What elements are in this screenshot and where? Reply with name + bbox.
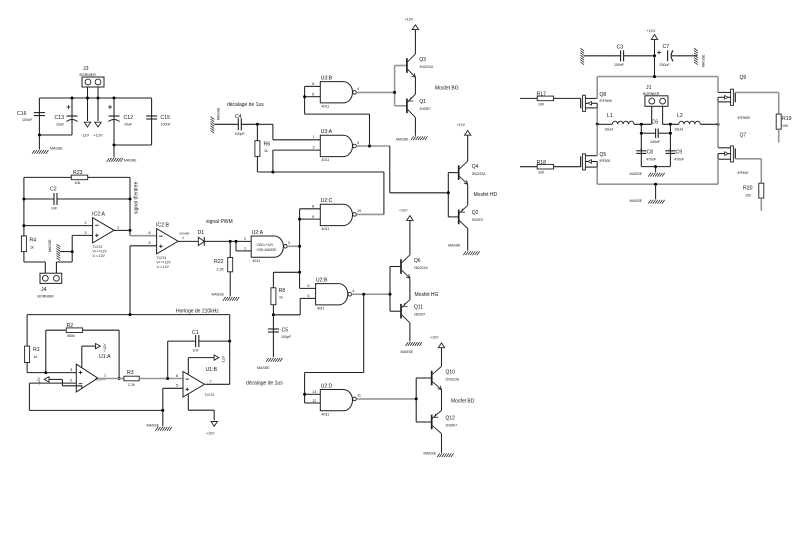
wire J3 pin1 to -12V arrow bbox=[87, 87, 89, 121]
inductor L1 bbox=[597, 113, 652, 132]
svg-text:J4: J4 bbox=[41, 287, 47, 293]
svg-text:Mosfet BG: Mosfet BG bbox=[435, 86, 459, 92]
svg-text:+12V: +12V bbox=[457, 123, 466, 127]
wire J1 pin2 bbox=[662, 106, 664, 124]
svg-text:MASSE: MASSE bbox=[630, 199, 643, 203]
svg-text:Q3: Q3 bbox=[419, 57, 426, 63]
junction bbox=[368, 145, 371, 148]
svg-text:13: 13 bbox=[312, 390, 316, 394]
svg-text:R19: R19 bbox=[782, 116, 792, 122]
net label signal PWM bbox=[206, 219, 233, 225]
svg-text:L2: L2 bbox=[677, 113, 683, 119]
inductor L2 bbox=[663, 113, 718, 132]
svg-text:100pF: 100pF bbox=[281, 335, 292, 339]
svg-text:5: 5 bbox=[312, 93, 314, 97]
resistor R22 bbox=[214, 241, 233, 296]
wire to U3A pin2 bbox=[273, 146, 320, 172]
svg-text:R23: R23 bbox=[73, 170, 83, 176]
junction bbox=[113, 144, 116, 147]
resistor R1 bbox=[25, 315, 40, 373]
capacitor C13 bbox=[55, 98, 78, 135]
svg-text:U3:B: U3:B bbox=[321, 75, 333, 81]
svg-text:100nF: 100nF bbox=[22, 118, 33, 122]
svg-text:signal PWM: signal PWM bbox=[206, 219, 233, 225]
svg-text:1nF: 1nF bbox=[51, 207, 58, 211]
junction bbox=[654, 183, 657, 186]
svg-text:Q6: Q6 bbox=[414, 258, 421, 264]
ground MASSE bbox=[401, 342, 423, 354]
wire Q5 source to rail bbox=[596, 167, 598, 184]
resistor R3 bbox=[104, 370, 183, 387]
svg-text:C15: C15 bbox=[161, 115, 171, 121]
svg-text:R4: R4 bbox=[30, 238, 37, 244]
svg-text:3: 3 bbox=[85, 231, 87, 235]
svg-text:C3: C3 bbox=[617, 45, 624, 51]
svg-text:+12V: +12V bbox=[103, 343, 107, 352]
net label Mosfet BG bbox=[435, 86, 459, 92]
net label Mosfet BD bbox=[451, 399, 475, 405]
svg-text:MASSE: MASSE bbox=[217, 107, 221, 120]
junction bbox=[129, 229, 132, 232]
svg-text:R18: R18 bbox=[537, 160, 547, 166]
svg-text:6: 6 bbox=[149, 231, 151, 235]
svg-text:1: 1 bbox=[104, 374, 106, 378]
svg-text:2.2k: 2.2k bbox=[128, 383, 135, 387]
resistor R17 bbox=[520, 92, 581, 107]
ground MASSE bbox=[630, 184, 665, 203]
svg-text:1: 1 bbox=[313, 135, 315, 139]
wire U3A out to HD driver bbox=[390, 146, 449, 193]
junction bbox=[393, 91, 396, 94]
mosfet Q9 bbox=[718, 75, 750, 120]
svg-text:+12V: +12V bbox=[94, 134, 103, 138]
svg-text:signal d'entrée: signal d'entrée bbox=[134, 181, 140, 214]
svg-text:2: 2 bbox=[70, 379, 72, 383]
wire U2C output bbox=[356, 172, 384, 214]
svg-text:IRF630: IRF630 bbox=[738, 171, 749, 175]
svg-text:4011: 4011 bbox=[317, 307, 325, 311]
svg-text:IRF630: IRF630 bbox=[600, 159, 611, 163]
junction bbox=[596, 123, 599, 126]
power +12V bbox=[430, 336, 445, 348]
ground MASSE bbox=[448, 243, 480, 255]
capacitor C4 bbox=[214, 114, 257, 136]
power -12V U1B top bbox=[188, 355, 225, 374]
svg-text:Q7: Q7 bbox=[740, 133, 747, 139]
svg-text:33uH: 33uH bbox=[605, 128, 614, 132]
wire driver input bar bbox=[395, 66, 407, 106]
junction bbox=[298, 271, 301, 274]
svg-text:2.2K: 2.2K bbox=[217, 268, 225, 272]
power +12V bbox=[405, 18, 419, 30]
junction bbox=[228, 340, 231, 343]
svg-text:10: 10 bbox=[357, 209, 361, 213]
svg-text:MASSE: MASSE bbox=[124, 159, 137, 163]
svg-text:Mosfet BD: Mosfet BD bbox=[451, 399, 475, 405]
nand gate U2:C bbox=[312, 198, 361, 231]
svg-text:VDD=+12V: VDD=+12V bbox=[257, 243, 274, 247]
svg-text:décalage de 1us: décalage de 1us bbox=[227, 102, 264, 108]
svg-text:1: 1 bbox=[244, 247, 246, 251]
svg-text:C6: C6 bbox=[652, 120, 659, 126]
svg-text:BORNIER: BORNIER bbox=[80, 73, 97, 77]
svg-text:IRF9630: IRF9630 bbox=[738, 116, 751, 120]
net label Mosfet HD bbox=[474, 192, 498, 198]
wire Q9 drain to node bbox=[717, 102, 719, 124]
svg-text:Q1: Q1 bbox=[419, 99, 426, 105]
resistor R4 bbox=[21, 236, 36, 262]
svg-text:6: 6 bbox=[176, 374, 178, 378]
power rail wire bbox=[39, 97, 151, 99]
svg-text:100nF: 100nF bbox=[614, 63, 625, 67]
svg-text:MASSE: MASSE bbox=[50, 147, 63, 151]
transistor Q1 bbox=[407, 77, 431, 136]
svg-text:2N2907: 2N2907 bbox=[414, 313, 426, 317]
connector J4 bbox=[38, 273, 62, 298]
capacitor C15 bbox=[146, 98, 171, 145]
svg-text:U2:B: U2:B bbox=[316, 277, 328, 283]
ground MASSE bbox=[396, 136, 428, 141]
wire C16-C13 bottom bbox=[39, 134, 72, 136]
svg-text:100nF: 100nF bbox=[161, 123, 172, 127]
svg-text:U2:C: U2:C bbox=[321, 198, 333, 204]
ground MASSE bbox=[147, 410, 172, 430]
svg-text:MASSE: MASSE bbox=[147, 424, 160, 428]
resistor R6 bbox=[255, 124, 270, 172]
junction bbox=[272, 313, 275, 316]
wire to IC2A pin2 bbox=[24, 221, 93, 226]
nand gate U2:B bbox=[307, 277, 354, 310]
wire U2A out to bus bbox=[287, 245, 299, 247]
svg-text:V-=-12V: V-=-12V bbox=[157, 265, 170, 269]
power +12V bbox=[457, 123, 471, 135]
svg-text:11: 11 bbox=[357, 394, 361, 398]
capacitor C7 bbox=[657, 44, 697, 67]
svg-text:+12V: +12V bbox=[405, 18, 414, 22]
svg-text:1k: 1k bbox=[279, 296, 283, 300]
svg-text:10uF: 10uF bbox=[56, 123, 65, 127]
svg-text:+12V: +12V bbox=[647, 29, 656, 33]
junction bbox=[44, 371, 47, 374]
svg-text:1k: 1k bbox=[30, 246, 34, 250]
svg-text:100: 100 bbox=[782, 124, 788, 128]
svg-text:4: 4 bbox=[352, 289, 354, 293]
svg-text:1nF: 1nF bbox=[193, 349, 200, 353]
svg-text:2: 2 bbox=[313, 146, 315, 150]
svg-text:100: 100 bbox=[538, 102, 544, 106]
op-amp U1:B bbox=[183, 367, 218, 397]
wire to IC2A pin3 bbox=[72, 231, 92, 252]
wire Q9 source to rail bbox=[717, 77, 719, 93]
svg-text:4011: 4011 bbox=[322, 412, 330, 416]
net label decalage bottom bbox=[246, 380, 283, 386]
wire bus U2A out to U2C inputs bbox=[300, 209, 321, 289]
svg-text:C2: C2 bbox=[50, 187, 57, 193]
wire U1A pin2 loop bbox=[29, 379, 162, 411]
wire U3B in from U3A out bbox=[305, 97, 370, 146]
svg-text:décalage de 1us: décalage de 1us bbox=[246, 380, 283, 386]
ground MASSE rotated bbox=[694, 48, 706, 67]
wire driver input bar bbox=[390, 267, 401, 312]
junction bbox=[166, 377, 169, 380]
svg-text:4011: 4011 bbox=[322, 158, 330, 162]
svg-text:R8: R8 bbox=[279, 288, 286, 294]
junction bbox=[362, 293, 365, 296]
power symbol +12V bbox=[94, 122, 103, 137]
svg-text:U2:A: U2:A bbox=[252, 230, 264, 236]
svg-text:C13: C13 bbox=[55, 115, 65, 121]
svg-text:560k: 560k bbox=[67, 334, 75, 338]
svg-text:470nF: 470nF bbox=[674, 157, 685, 161]
resistor R19 bbox=[735, 92, 791, 142]
capacitor C8 bbox=[636, 148, 657, 167]
svg-text:9: 9 bbox=[312, 215, 314, 219]
junction bbox=[415, 397, 418, 400]
svg-text:3: 3 bbox=[288, 241, 290, 245]
transistor Q2 bbox=[459, 184, 484, 251]
ground MASSE rotated C4 bbox=[211, 107, 221, 133]
power +12V bbox=[647, 29, 658, 77]
svg-text:1k: 1k bbox=[264, 149, 268, 153]
svg-text:MASSE: MASSE bbox=[257, 366, 270, 370]
svg-text:V-=-12V: V-=-12V bbox=[93, 254, 106, 258]
svg-text:C12: C12 bbox=[124, 115, 134, 121]
svg-text:TL074: TL074 bbox=[157, 256, 167, 260]
svg-text:3: 3 bbox=[357, 141, 359, 145]
power -12V U1A bbox=[37, 377, 82, 389]
connector J1 bbox=[643, 85, 668, 106]
svg-text:C9: C9 bbox=[676, 149, 683, 155]
svg-text:1: 1 bbox=[117, 226, 119, 230]
junction bbox=[38, 134, 41, 137]
mosfet Q5 bbox=[581, 152, 611, 170]
wire U1A out / R3 net bbox=[98, 378, 124, 380]
wire D1 to U2A bbox=[204, 240, 251, 242]
svg-text:2: 2 bbox=[244, 237, 246, 241]
resistor R2 bbox=[46, 323, 119, 379]
svg-text:330uF: 330uF bbox=[660, 63, 671, 67]
wire driver input bar bbox=[448, 173, 458, 217]
svg-text:2N2907: 2N2907 bbox=[446, 423, 458, 427]
wire U2D output bbox=[356, 398, 416, 400]
svg-text:Q12: Q12 bbox=[446, 415, 456, 421]
transistor Q12 bbox=[432, 390, 458, 453]
svg-text:BORNIER: BORNIER bbox=[643, 92, 660, 96]
nand gate U2:D bbox=[312, 383, 361, 416]
power symbol -12V bbox=[81, 122, 91, 137]
svg-text:10uF: 10uF bbox=[124, 123, 133, 127]
diode D1 bbox=[198, 230, 205, 246]
svg-text:V+=+12V: V+=+12V bbox=[157, 260, 172, 264]
svg-text:R1: R1 bbox=[33, 347, 40, 353]
svg-text:Q9: Q9 bbox=[740, 75, 747, 81]
wire U2B out to U2D inputs bbox=[305, 294, 364, 403]
svg-text:2N2222A: 2N2222A bbox=[472, 172, 487, 176]
svg-text:IC2:B: IC2:B bbox=[156, 223, 170, 229]
net label decalage top bbox=[227, 102, 264, 108]
wire Q5 drain to node bbox=[596, 124, 598, 155]
op-amp IC2:A bbox=[92, 212, 114, 258]
svg-text:-12V: -12V bbox=[37, 377, 41, 385]
ground MASSE bbox=[257, 358, 283, 370]
wire driver input bar bbox=[416, 378, 432, 422]
svg-text:2N2907: 2N2907 bbox=[419, 107, 431, 111]
wire clock net bbox=[27, 314, 230, 316]
junction bbox=[118, 377, 121, 380]
svg-text:U2:D: U2:D bbox=[321, 383, 333, 389]
wire J4 pin2 up bbox=[56, 252, 72, 274]
capacitor C9 bbox=[665, 148, 685, 167]
svg-text:U1:B: U1:B bbox=[206, 367, 218, 373]
svg-text:100nF: 100nF bbox=[650, 140, 661, 144]
junction bbox=[447, 191, 450, 194]
svg-text:R3: R3 bbox=[127, 370, 134, 376]
junction bbox=[97, 97, 100, 100]
svg-text:Q5: Q5 bbox=[600, 152, 607, 158]
svg-text:2N2222A: 2N2222A bbox=[446, 377, 461, 381]
svg-text:Q10: Q10 bbox=[446, 369, 456, 375]
ground MASSE bbox=[630, 167, 665, 177]
ground MASSE bbox=[212, 292, 240, 301]
svg-text:MASSE: MASSE bbox=[212, 292, 225, 296]
wire inverting-input node vertical bbox=[23, 177, 25, 236]
resistor R18 bbox=[520, 160, 581, 175]
svg-text:TL074: TL074 bbox=[93, 245, 103, 249]
transistor Q3 bbox=[407, 30, 434, 78]
svg-text:+12V: +12V bbox=[399, 208, 408, 212]
svg-text:Mosfet HG: Mosfet HG bbox=[415, 292, 439, 298]
junction bbox=[653, 75, 656, 78]
capacitor C12 bbox=[108, 98, 133, 145]
wire feedback vertical bbox=[129, 177, 131, 230]
svg-text:C1: C1 bbox=[192, 330, 199, 336]
junction bbox=[86, 97, 89, 100]
wire IC2A out to IC2B pin6 bbox=[130, 230, 157, 235]
svg-text:2: 2 bbox=[85, 221, 87, 225]
svg-text:7: 7 bbox=[210, 379, 212, 383]
wire J1 pin1 bbox=[651, 106, 653, 124]
op-amp U1:A bbox=[76, 354, 111, 392]
wire Q8 drain to node bbox=[596, 108, 598, 124]
junction bbox=[271, 171, 274, 174]
wire U2B output bbox=[352, 293, 390, 295]
svg-text:R2: R2 bbox=[67, 323, 74, 329]
svg-text:6: 6 bbox=[312, 82, 314, 86]
capacitor C1 bbox=[168, 330, 230, 379]
svg-text:MASSE: MASSE bbox=[424, 452, 437, 456]
junction bbox=[717, 123, 720, 126]
capacitor C3 bbox=[580, 45, 654, 68]
svg-text:Horloge de 210kHz: Horloge de 210kHz bbox=[176, 309, 219, 315]
svg-text:C7: C7 bbox=[663, 44, 670, 50]
junction bbox=[654, 165, 657, 168]
wire C12-C15 bottom bbox=[114, 144, 152, 146]
junction bbox=[22, 198, 25, 201]
resistor R20 bbox=[735, 159, 764, 211]
svg-text:R22: R22 bbox=[214, 259, 224, 265]
svg-text:Mosfet HD: Mosfet HD bbox=[474, 192, 498, 198]
svg-text:-12V: -12V bbox=[81, 134, 89, 138]
svg-text:VSS=MASSE: VSS=MASSE bbox=[257, 248, 278, 252]
svg-text:12: 12 bbox=[312, 399, 316, 403]
svg-text:L1: L1 bbox=[607, 113, 613, 119]
svg-text:-12V: -12V bbox=[222, 355, 226, 363]
svg-text:J3: J3 bbox=[83, 66, 89, 72]
wire U2A pin1 jog bbox=[236, 237, 251, 251]
svg-text:8: 8 bbox=[312, 205, 314, 209]
junction bbox=[113, 97, 116, 100]
svg-text:Q8: Q8 bbox=[600, 92, 607, 98]
svg-text:100: 100 bbox=[745, 194, 751, 198]
connector J3 bbox=[80, 66, 105, 87]
svg-text:4011: 4011 bbox=[322, 227, 330, 231]
junction bbox=[256, 123, 259, 126]
transistor Q6 bbox=[401, 220, 428, 278]
svg-text:4011: 4011 bbox=[252, 259, 260, 263]
svg-text:470nF: 470nF bbox=[646, 157, 657, 161]
svg-text:2N2907: 2N2907 bbox=[472, 218, 484, 222]
wire H-bridge bottom rail bbox=[597, 183, 718, 185]
wire U3A output bbox=[356, 145, 389, 147]
svg-text:5: 5 bbox=[149, 241, 151, 245]
junction bbox=[389, 293, 392, 296]
svg-text:V+=+12V: V+=+12V bbox=[93, 249, 108, 253]
junction bbox=[298, 218, 301, 221]
junction bbox=[129, 313, 132, 316]
svg-text:100pF: 100pF bbox=[235, 132, 246, 136]
svg-text:C16: C16 bbox=[17, 111, 27, 117]
svg-text:5: 5 bbox=[176, 384, 178, 388]
svg-text:2N2222A: 2N2222A bbox=[414, 266, 429, 270]
svg-text:U5A/4B: U5A/4B bbox=[179, 232, 189, 236]
svg-text:MASSE: MASSE bbox=[630, 172, 643, 176]
svg-text:R20: R20 bbox=[743, 186, 753, 192]
junction bbox=[22, 224, 25, 227]
op-amp IC2:B bbox=[156, 223, 178, 269]
wire IC2B pin5 from clock bbox=[130, 241, 157, 314]
svg-text:100: 100 bbox=[538, 171, 544, 175]
svg-text:BORNIER: BORNIER bbox=[38, 295, 55, 299]
ground MASSE rotated bbox=[48, 239, 72, 261]
svg-text:IC2:A: IC2:A bbox=[92, 212, 106, 218]
resistor R23 bbox=[24, 170, 130, 185]
wire Q7 source to rail bbox=[717, 159, 719, 184]
wire Q8 source to rail bbox=[596, 77, 598, 99]
net label signal d'entree bbox=[134, 181, 140, 214]
wire J3 pin2 to +12V arrow bbox=[97, 87, 99, 121]
junction bbox=[303, 393, 306, 396]
wire R6 bottom net bbox=[257, 171, 384, 173]
wire C8-C9 bottom bbox=[641, 166, 670, 168]
svg-text:6: 6 bbox=[307, 294, 309, 298]
wire bus to U2B pin5 bbox=[300, 287, 316, 289]
junction bbox=[229, 240, 232, 243]
junction bbox=[669, 132, 672, 135]
junction bbox=[653, 54, 656, 57]
svg-text:C5: C5 bbox=[282, 328, 289, 334]
junction bbox=[640, 123, 643, 126]
junction bbox=[71, 97, 74, 100]
svg-text:+12V: +12V bbox=[430, 336, 439, 340]
svg-text:Q2: Q2 bbox=[472, 210, 479, 216]
mosfet Q8 bbox=[581, 92, 613, 112]
power +12V U1A bbox=[82, 343, 107, 368]
ground MASSE bbox=[424, 452, 454, 458]
svg-text:IRF9630: IRF9630 bbox=[600, 99, 613, 103]
junction bbox=[669, 123, 672, 126]
nand gate U2:A bbox=[251, 230, 290, 263]
svg-text:U1:A: U1:A bbox=[99, 354, 111, 360]
